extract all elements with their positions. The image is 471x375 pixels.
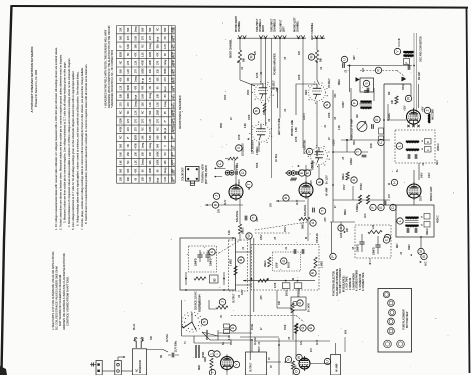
svg-text:1.2K: 1.2K — [373, 224, 375, 229]
callout D lower left — [230, 325, 236, 331]
jack J5 — [274, 35, 278, 38]
svg-text:PHONO RIGHT: PHONO RIGHT — [236, 15, 238, 32]
svg-text:117VAC: 117VAC — [254, 336, 257, 345]
dashed link left — [255, 222, 307, 230]
tone row wire — [243, 280, 315, 282]
wire balance left vertical — [307, 197, 309, 218]
arrow IF amp — [388, 183, 390, 185]
svg-text:180K: 180K — [172, 159, 174, 165]
2nd IF terminal box E2 — [424, 222, 430, 228]
svg-text:117V 60Hz: 117V 60Hz — [176, 340, 178, 352]
output tube V5 right channel (dark) — [221, 357, 234, 370]
tube placement circle V5 — [388, 328, 395, 335]
2nd IF terminal box E1 — [424, 214, 430, 220]
svg-text:O: O — [295, 370, 299, 373]
svg-text:2.2MEG: 2.2MEG — [257, 146, 259, 155]
svg-text:BALANCE: BALANCE — [304, 204, 307, 216]
resistor 1 meg left horizontal — [299, 217, 310, 220]
transistor terminal view square — [186, 167, 200, 182]
scattered component value labels — [151, 56, 429, 360]
svg-text:CHANNEL: CHANNEL — [297, 20, 300, 32]
svg-text:1MEG: 1MEG — [427, 228, 429, 235]
svg-text:20V: 20V — [219, 208, 221, 213]
tube placement circle V3 — [389, 309, 396, 316]
svg-text:1MEG: 1MEG — [303, 222, 305, 229]
svg-text:M: M — [310, 55, 314, 58]
wire controls left 2 — [216, 176, 222, 178]
svg-text:AF AMP: AF AMP — [336, 363, 339, 372]
svg-text:150K: 150K — [285, 324, 287, 330]
callout F 1st IF — [351, 100, 357, 106]
wire drop tape A1 — [260, 38, 262, 84]
AC outlet right terminals — [117, 363, 120, 366]
svg-text:1. AUX TAPE: 1. AUX TAPE — [346, 276, 349, 290]
arrows below dashed box — [369, 262, 371, 264]
capacitor antenna — [407, 65, 409, 70]
resistor tone left box — [234, 266, 237, 275]
wire IF vertical x374 — [373, 88, 375, 101]
capacitor tone top 1 — [293, 249, 295, 254]
svg-text:470K: 470K — [135, 143, 137, 149]
wire driver tubes up left — [305, 165, 307, 183]
svg-text:5.6K: 5.6K — [128, 44, 130, 49]
2nd IF transformer box — [396, 205, 434, 237]
capacitor IF top — [366, 88, 368, 93]
callout N right — [253, 108, 259, 114]
resistor tone row — [258, 279, 268, 282]
svg-text:0*: 0* — [172, 145, 174, 147]
svg-text:NC: NC — [143, 44, 145, 48]
svg-text:140V: 140V — [422, 172, 424, 178]
svg-text:8. Switch shown in counterclo: 8. Switch shown in counterclockwise posi… — [84, 64, 88, 224]
svg-text:117V: 117V — [297, 199, 299, 205]
svg-text:TUBE PLACEMENT: TUBE PLACEMENT — [403, 309, 406, 330]
svg-text:10K: 10K — [143, 135, 145, 140]
wire driver right plate bus — [205, 204, 243, 206]
svg-text:20MFD: 20MFD — [211, 258, 213, 266]
svg-text:5.6K: 5.6K — [150, 176, 152, 181]
svg-text:S1A AND S1B SHOWN IN: S1A AND S1B SHOWN IN — [336, 269, 339, 296]
svg-text:8Ω: 8Ω — [223, 342, 225, 345]
svg-text:NC: NC — [120, 61, 122, 65]
svg-text:0*: 0* — [120, 45, 122, 47]
resistor 1 meg right — [238, 224, 241, 234]
svg-text:V2 6EU7: V2 6EU7 — [328, 78, 331, 88]
svg-text:CHANNEL B: CHANNEL B — [274, 18, 277, 32]
wire controls left 1 — [216, 167, 226, 169]
svg-text:5.6K: 5.6K — [143, 93, 145, 98]
callout M left — [308, 54, 314, 60]
svg-text:0*: 0* — [172, 95, 174, 97]
wire tuner box bottom — [384, 204, 396, 206]
jack J2 — [243, 35, 247, 38]
svg-text:LOW: LOW — [277, 262, 279, 268]
wire bottom vertical x218 — [217, 330, 219, 340]
wire IF tube top — [413, 170, 415, 184]
tube V1B second half — [252, 124, 270, 142]
callout D IF amp left — [390, 204, 396, 210]
callout F det — [370, 204, 376, 210]
svg-text:3. Measured values are from s: 3. Measured values are from socket pin t… — [63, 61, 67, 223]
svg-text:V1B: V1B — [277, 87, 279, 92]
svg-text:100K: 100K — [158, 109, 160, 115]
callout O2 — [300, 325, 306, 331]
callout G tone module — [281, 258, 287, 264]
svg-text:FM ANT: FM ANT — [418, 71, 421, 80]
svg-text:tie pt: tie pt — [157, 177, 160, 182]
svg-text:CONTROL VIEWED FROM SHAFT END.: CONTROL VIEWED FROM SHAFT END. — [65, 276, 69, 326]
dashed link lower — [231, 315, 296, 317]
svg-text:G: G — [282, 259, 286, 262]
2nd IF caps — [406, 228, 408, 233]
svg-text:LEFT CHANNEL: LEFT CHANNEL — [311, 22, 314, 40]
svg-text:O: O — [301, 326, 305, 329]
svg-text:100K: 100K — [172, 35, 174, 41]
resistor 56K left channel — [315, 50, 318, 62]
svg-text:RIGHT: RIGHT — [263, 24, 265, 32]
svg-text:ARROWS ON CONTROLS INDICATE CL: ARROWS ON CONTROLS INDICATE CLOCKWISE RO… — [62, 253, 66, 330]
tube V1A 6EU7 1st AF amp right — [255, 84, 272, 101]
svg-text:470K: 470K — [120, 126, 122, 132]
svg-text:DC COIL RESISTANCE VALUES UNDE: DC COIL RESISTANCE VALUES UNDER ONE OHM — [55, 266, 59, 330]
dashed bus left — [255, 232, 290, 234]
svg-text:NC: NC — [128, 52, 130, 56]
callout supply — [209, 249, 215, 255]
svg-text:36K: 36K — [128, 177, 130, 182]
svg-text:2meg: 2meg — [150, 142, 152, 149]
svg-text:33K: 33K — [120, 27, 122, 32]
svg-text:1meg: 1meg — [135, 76, 137, 83]
dashed AVC corner — [397, 71, 404, 81]
svg-text:117VAC: 117VAC — [166, 333, 169, 342]
wire converter feed horizontal — [388, 119, 406, 121]
svg-text:1.2K: 1.2K — [135, 110, 137, 115]
svg-text:100K: 100K — [249, 114, 251, 120]
capacitor tuner input — [342, 63, 344, 68]
svg-text:15K: 15K — [128, 77, 130, 82]
wire right driver down — [239, 234, 241, 241]
capacitor under converter box — [364, 90, 369, 92]
diode detector — [402, 77, 406, 81]
2nd IF coil lower (dark) — [406, 224, 419, 227]
wire switch bottom 2 — [194, 342, 230, 344]
svg-text:RIGHT CHANNEL: RIGHT CHANNEL — [230, 39, 233, 58]
schematic frame right border — [467, 7, 470, 373]
resistor 1.2K in cap box — [368, 230, 382, 233]
arrow antenna — [398, 41, 400, 47]
svg-text:33K: 33K — [150, 69, 152, 74]
inner dashed electrolytic box — [189, 246, 217, 272]
capacitor coupling left — [312, 208, 314, 213]
callout H IF amp — [391, 179, 397, 185]
callout U tuner — [341, 56, 347, 62]
svg-text:1500: 1500 — [306, 89, 308, 95]
svg-text:12AX7: 12AX7 — [303, 112, 306, 120]
svg-text:AUX INPUT: AUX INPUT — [280, 19, 283, 32]
callout V5 bottom tube — [233, 361, 239, 367]
callout O output low — [293, 368, 299, 374]
svg-text:S1 REAR: S1 REAR — [199, 300, 202, 310]
wire tuner mid horizontal — [341, 139, 390, 141]
svg-text:6.8K: 6.8K — [245, 123, 247, 128]
svg-text:7. Circuits, plugs, sockets a: 7. Circuits, plugs, sockets and voltage … — [80, 67, 84, 230]
callout F right — [317, 179, 323, 185]
svg-text:33K: 33K — [143, 102, 145, 107]
svg-text:470K: 470K — [257, 72, 259, 78]
svg-text:2meg: 2meg — [172, 125, 174, 132]
wire output module to cluster — [267, 361, 282, 363]
wire tuner main horizontal — [347, 65, 412, 67]
svg-text:100K: 100K — [329, 112, 331, 118]
junction dots scattered — [185, 61, 422, 346]
wire V1 loop right — [271, 88, 278, 108]
svg-text:8.2K: 8.2K — [229, 230, 231, 235]
svg-text:1.2K: 1.2K — [135, 60, 137, 65]
arrow controls left 1 — [214, 167, 216, 169]
svg-text:0*: 0* — [165, 120, 167, 122]
capacitor bottom 1 — [171, 353, 173, 358]
svg-text:CHANNEL: CHANNEL — [238, 20, 241, 32]
bass pot box 1 — [282, 283, 290, 289]
svg-text:AVC: AVC — [364, 213, 367, 218]
callout E left driver — [316, 179, 322, 185]
svg-text:tie pt: tie pt — [142, 78, 145, 83]
callout S loudness — [236, 145, 242, 151]
svg-text:10K: 10K — [165, 135, 167, 140]
capacitor tuner low — [362, 154, 367, 156]
callout E det — [378, 204, 384, 210]
svg-text:135V: 135V — [261, 234, 263, 240]
callout D control left — [240, 170, 246, 176]
svg-text:L: L — [398, 145, 402, 147]
speaker terminal boxes — [224, 324, 230, 328]
svg-text:I: I — [215, 353, 219, 354]
svg-text:FUSE: FUSE — [252, 323, 254, 330]
svg-text:DET: DET — [397, 243, 399, 248]
svg-text:455KC: 455KC — [437, 215, 440, 223]
svg-text:47K: 47K — [128, 35, 130, 40]
osc terminal box C — [425, 147, 432, 153]
wire bottom bus 1 — [218, 332, 252, 334]
wire cluster to AF box — [310, 363, 331, 365]
jack J8 phono left — [297, 35, 301, 38]
svg-text:5.6K: 5.6K — [150, 135, 152, 140]
svg-text:36K: 36K — [150, 160, 152, 165]
resistor output cathode — [210, 358, 213, 368]
wire tuner low horizontal — [333, 151, 368, 153]
svg-text:10K: 10K — [279, 300, 281, 305]
tube placement chart box — [378, 289, 412, 353]
svg-text:NC: NC — [158, 127, 160, 131]
arrow V1B input — [247, 138, 249, 140]
detector output arrow — [419, 261, 421, 263]
junction converter feed — [387, 119, 389, 121]
callout C below — [378, 139, 384, 145]
wire output corner — [209, 300, 216, 309]
arrow controls left 2 — [214, 176, 216, 178]
FM antenna coil L1 (dark) — [404, 50, 414, 53]
wire supply bottom — [185, 272, 187, 285]
AM osc coil small — [428, 114, 430, 123]
wire AF box feed — [335, 343, 337, 355]
callout P supply — [330, 253, 336, 259]
right control arrow — [285, 172, 287, 174]
svg-text:3.3K: 3.3K — [165, 176, 167, 181]
wire osc down — [418, 163, 420, 180]
svg-text:0V: 0V — [271, 365, 273, 368]
svg-text:10K: 10K — [120, 94, 122, 99]
svg-text:2. Socket connections are sho: 2. Socket connections are shown as botto… — [58, 54, 62, 230]
callout U output — [324, 358, 330, 364]
tube V4 driver left (dark) — [299, 183, 313, 197]
wire V2 plate loop — [296, 84, 317, 115]
svg-text:5.6K: 5.6K — [172, 176, 174, 181]
callout L output — [208, 350, 214, 356]
right control cap — [296, 171, 298, 175]
svg-text:3.3MEG: 3.3MEG — [357, 203, 359, 212]
input bus wire segment right — [313, 37, 325, 39]
more bottom wires output — [211, 372, 213, 375]
svg-text:LEFT: LEFT — [284, 26, 286, 32]
wire tone bottom h — [277, 307, 291, 309]
svg-text:5. Line voltage maintained at: 5. Line voltage maintained at 117 volts … — [71, 71, 75, 230]
supply small box — [210, 275, 219, 283]
tuner enclosure top — [384, 83, 411, 85]
svg-text:10K: 10K — [392, 99, 394, 104]
dashed stub right — [200, 252, 219, 254]
svg-text:5. STEREO FM: 5. STEREO FM — [360, 274, 362, 290]
wire lower tone vertical — [292, 310, 294, 340]
svg-text:M: M — [250, 55, 254, 58]
jack J3 tape A — [259, 35, 263, 38]
svg-text:PLUG: PLUG — [134, 324, 136, 330]
wire loudness to pots — [233, 160, 235, 171]
wire tuner vertical x349 — [349, 66, 351, 93]
tuner inner vertical — [418, 84, 420, 108]
svg-text:INTERLOCK: INTERLOCK — [140, 359, 142, 373]
svg-text:36K: 36K — [120, 35, 122, 40]
svg-text:4. Nominal tolerance of compo: 4. Nominal tolerance of component values… — [67, 57, 71, 227]
callout B right — [212, 202, 218, 208]
resistor 1meg det — [346, 172, 349, 180]
svg-text:NC: NC — [150, 86, 152, 90]
wire V2B down — [318, 165, 320, 181]
svg-text:15K: 15K — [143, 152, 145, 157]
svg-text:RED: RED — [199, 365, 201, 370]
svg-text:3.3K: 3.3K — [158, 102, 160, 107]
switch wiper arms — [183, 322, 196, 330]
svg-text:1N60: 1N60 — [409, 244, 411, 250]
wire av amp bottom — [292, 369, 294, 375]
svg-text:180K: 180K — [158, 151, 160, 157]
svg-text:47K: 47K — [135, 168, 137, 173]
svg-text:10K: 10K — [165, 160, 167, 165]
wire converter feed vertical — [387, 104, 389, 120]
svg-text:47K: 47K — [120, 77, 122, 82]
svg-text:F: F — [371, 206, 375, 208]
svg-text:Z: Z — [426, 109, 430, 111]
wire output stage — [211, 368, 213, 372]
dashed diagonal link — [296, 316, 304, 323]
svg-text:1meg: 1meg — [150, 42, 152, 49]
callout T right — [250, 215, 256, 221]
svg-text:“AUX INPUT” POSITION: “AUX INPUT” POSITION — [339, 268, 342, 294]
tube placement circle V1 — [383, 291, 389, 297]
svg-text:455KC: 455KC — [361, 183, 363, 190]
svg-text:1 MEG: 1 MEG — [237, 163, 239, 170]
svg-text:NC: NC — [120, 135, 122, 139]
svg-text:150V: 150V — [344, 184, 346, 190]
svg-text:T: T — [252, 217, 256, 219]
svg-text:220K: 220K — [299, 74, 301, 80]
svg-text:TAPE INPUT: TAPE INPUT — [256, 18, 259, 32]
capacitor coupling right — [244, 216, 246, 221]
svg-text:©Howard W. Sams & Co., Inc. 19: ©Howard W. Sams & Co., Inc. 1960 — [35, 69, 38, 107]
svg-text:820K: 820K — [165, 68, 167, 74]
wire V1B down — [258, 142, 260, 152]
svg-text:50C5: 50C5 — [239, 179, 241, 185]
resistor V1 cathode — [263, 103, 266, 112]
svg-text:SR: SR — [161, 354, 163, 358]
rotary switch S1 wafer (dotted circle) — [182, 312, 202, 332]
svg-text:NC: NC — [172, 44, 174, 48]
svg-text:20V: 20V — [271, 202, 273, 207]
wire IF tube drop — [413, 198, 415, 205]
svg-text:1500: 1500 — [225, 94, 227, 100]
svg-text:1MEG: 1MEG — [243, 227, 245, 234]
svg-text:6. STEREO TAPE: 6. STEREO TAPE — [362, 272, 365, 291]
svg-text:15K: 15K — [172, 85, 174, 90]
wire to outlet left — [90, 364, 96, 366]
inner tone module dashed box — [273, 252, 301, 271]
capacitor tuning mica — [371, 124, 373, 129]
wire x353 det row up — [352, 186, 354, 200]
callout K detector — [351, 177, 357, 183]
svg-text:36K: 36K — [135, 44, 137, 49]
callout N left — [324, 102, 330, 108]
arrow outlet feed — [117, 357, 119, 361]
wire bottom right vertical — [344, 337, 346, 352]
resistor det row 1 — [358, 195, 361, 204]
wire avc vertical x341 — [340, 222, 342, 232]
svg-text:OUTPUT: OUTPUT — [251, 362, 253, 372]
callout E control right — [299, 170, 305, 176]
svg-text:140V: 140V — [429, 172, 431, 178]
svg-text:1meg: 1meg — [135, 26, 137, 33]
wire loudness stub — [225, 158, 228, 160]
IF amp tube V6 (dark) — [407, 184, 421, 198]
svg-text:470K: 470K — [275, 282, 277, 288]
svg-text:NC: NC — [128, 144, 130, 148]
svg-text:1. DC voltage measurements ta: 1. DC voltage measurements taken with va… — [54, 47, 58, 230]
svg-text:500K: 500K — [257, 162, 259, 168]
wire supply horizontal y222 — [330, 221, 355, 223]
wire IF vertical x351 — [350, 88, 352, 140]
svg-text:35C5: 35C5 — [259, 346, 261, 352]
svg-text:6BE6: 6BE6 — [345, 209, 347, 215]
wire det row — [353, 199, 390, 201]
svg-text:1 MEG: 1 MEG — [231, 259, 233, 266]
right control pot 1 — [287, 171, 292, 176]
wire output bus — [240, 336, 279, 338]
wire 2nd IF down — [420, 237, 422, 248]
svg-text:47K: 47K — [255, 50, 257, 55]
svg-text:2meg: 2meg — [143, 159, 145, 166]
svg-text:470K: 470K — [143, 60, 145, 66]
2nd IF arrows — [421, 216, 423, 218]
svg-text:VC: VC — [221, 314, 223, 318]
svg-text:NC: NC — [143, 127, 145, 131]
